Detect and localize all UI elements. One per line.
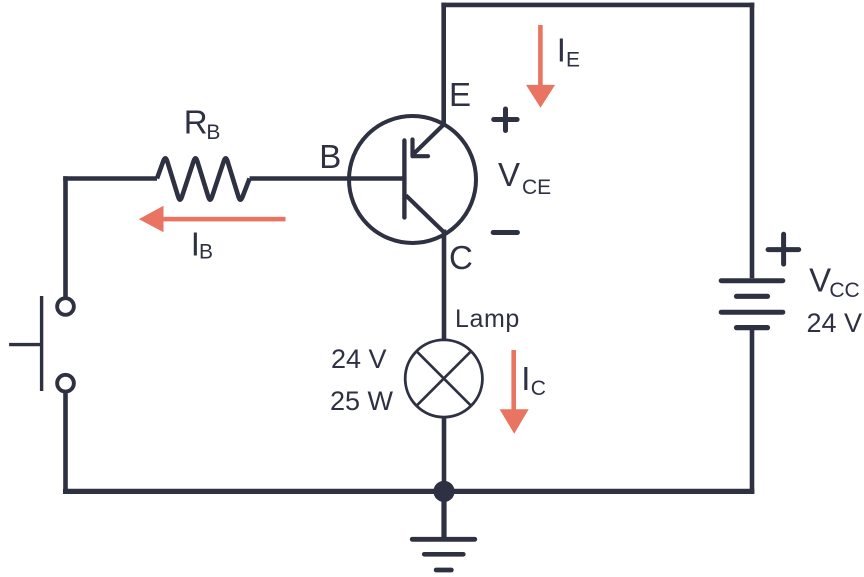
battery VCC plate long lower (721, 310, 783, 315)
svg-text:CC: CC (829, 279, 859, 302)
svg-text:CE: CE (522, 176, 551, 199)
wire base (resistor to transistor base bar) (250, 176, 405, 181)
ground bar 1 (412, 537, 475, 542)
ground bar 3 (436, 568, 451, 573)
switch pushbutton terminal circle upper (57, 298, 74, 315)
svg-text:24 V: 24 V (331, 344, 387, 374)
svg-text:V: V (809, 261, 831, 298)
wire right rail lower (750, 330, 755, 494)
svg-text:C: C (449, 239, 473, 276)
VCE plus sign (494, 109, 517, 131)
svg-text:B: B (319, 138, 341, 175)
wire left horizontal to resistor (63, 176, 157, 181)
transistor emitter arrowhead barb horizontal (413, 154, 428, 158)
battery VCC plate short bottom (737, 325, 768, 330)
VCE minus sign (493, 230, 517, 235)
svg-text:R: R (184, 103, 208, 140)
resistor RB zigzag (157, 158, 250, 199)
current arrow IC (500, 350, 529, 434)
transistor base bar (402, 141, 406, 218)
svg-text:I: I (521, 360, 530, 397)
battery plus sign (768, 234, 799, 264)
svg-text:C: C (531, 377, 546, 400)
battery VCC plate long top (721, 278, 783, 283)
svg-text:Lamp: Lamp (455, 305, 520, 333)
wire top rail (441, 3, 754, 8)
lamp cross line 1 (417, 351, 472, 406)
transistor emitter arrowhead barb vertical (410, 140, 414, 157)
junction node dot (433, 481, 454, 502)
wire lamp to bottom rail (442, 416, 447, 493)
svg-text:24 V: 24 V (807, 308, 863, 338)
svg-text:E: E (449, 76, 471, 113)
battery VCC plate short upper (737, 294, 768, 299)
ground stub (441, 491, 446, 539)
ground bar 2 (424, 552, 463, 557)
wire emitter vertical to top rail (441, 3, 446, 125)
wire left rail upper (resistor to switch) (63, 176, 68, 296)
svg-text:E: E (566, 49, 580, 72)
wire collector to lamp (442, 230, 447, 342)
svg-text:B: B (199, 241, 213, 264)
transistor Q1 circle (349, 116, 476, 243)
svg-text:25 W: 25 W (330, 386, 394, 416)
switch actuator bar horizontal (9, 343, 42, 346)
current arrow IB (139, 206, 286, 233)
lamp cross line 2 (417, 351, 472, 406)
wire right rail upper (750, 3, 755, 279)
transistor emitter diagonal (414, 125, 444, 154)
svg-text:B: B (206, 121, 220, 144)
transistor collector diagonal (406, 195, 444, 232)
lamp circle (405, 340, 482, 417)
switch actuator bar vertical (40, 296, 43, 391)
svg-text:I: I (557, 32, 566, 69)
current arrow IE (526, 25, 555, 108)
wire bottom rail (63, 489, 754, 494)
svg-text:V: V (498, 156, 520, 193)
wire left rail lower (switch to bottom rail) (63, 393, 68, 493)
switch pushbutton terminal circle lower (57, 375, 74, 392)
